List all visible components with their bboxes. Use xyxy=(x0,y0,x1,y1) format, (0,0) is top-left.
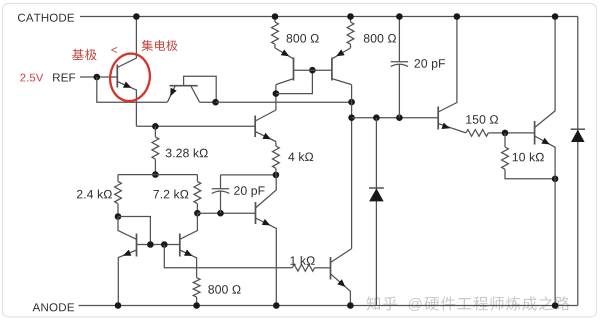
transistor Q8 emitter arrow xyxy=(184,250,193,256)
transistor Q4 emitter arrow xyxy=(336,49,344,56)
label 4 kOhm xyxy=(288,153,294,161)
transistor Q2 bar xyxy=(170,85,198,87)
label 10 kOhm xyxy=(513,153,518,161)
diode D1 wire xyxy=(375,118,377,306)
transistor Q2 emitter xyxy=(167,86,175,102)
transistor Q10 emitter xyxy=(438,124,466,133)
wire C2 top row xyxy=(221,174,276,176)
transistor Q3 bar xyxy=(293,58,295,81)
transistor Q2 base loop xyxy=(184,76,217,102)
wire 7.2k bottom to Q6 base xyxy=(197,212,255,214)
node Q11 base xyxy=(502,130,509,137)
node Q1 collector on rail xyxy=(133,13,140,20)
transistor Q3 base wire xyxy=(294,69,313,71)
wire REF down xyxy=(97,77,168,102)
wire PNP base link xyxy=(276,70,313,93)
node 10k bottom xyxy=(552,176,559,183)
transistor Q7 emitter xyxy=(118,250,136,306)
resistor R10 10k leads xyxy=(505,133,555,179)
resistor R5 7.2k leads xyxy=(196,175,198,214)
resistor R4 2.4k leads xyxy=(117,175,119,217)
node Q2 collector xyxy=(212,99,219,106)
node Q6 emitter anode xyxy=(273,302,280,309)
transistor Q4 collector xyxy=(332,79,352,85)
transistor Q9 bar xyxy=(330,257,332,280)
wire Q2 collector to node xyxy=(200,101,216,103)
resistor R5 7.2k body xyxy=(194,181,201,203)
transistor Q8 emitter xyxy=(180,250,197,278)
label 2.4 kOhm xyxy=(77,190,83,199)
label collector-red jidianji xyxy=(142,40,153,51)
label 800 Ohm bottom xyxy=(208,285,214,294)
transistor Q5 emitter xyxy=(255,132,276,142)
label less-than red xyxy=(111,47,117,53)
node R2 top xyxy=(347,13,354,20)
label 150 Ohm xyxy=(466,115,471,123)
transistor Q4 bar xyxy=(331,58,333,81)
node 3.28k bottom xyxy=(152,171,159,178)
node Q8 base drop xyxy=(161,241,168,248)
wire Q7 diode loop xyxy=(118,217,150,245)
node R7 anode xyxy=(193,302,200,309)
resistor R7 800 lead xyxy=(196,297,198,305)
transistor Q7 bar xyxy=(136,234,138,257)
transistor Q10 bar xyxy=(437,107,439,130)
transistor Q4 base wire xyxy=(312,69,332,71)
node Q7 base xyxy=(147,241,154,248)
node PNP bases xyxy=(309,67,316,74)
node vertical 117 xyxy=(348,114,355,121)
diode D1 bar xyxy=(369,187,384,189)
label ANODE xyxy=(33,303,41,311)
wire Q1 emitter to Q5 base xyxy=(136,125,255,127)
transistor Q7 emitter arrow xyxy=(123,250,131,256)
resistor R6 4k leads xyxy=(275,142,277,175)
wire node102 row xyxy=(216,101,352,103)
transistor Q5 bar xyxy=(254,116,256,138)
node 4k bottom xyxy=(273,172,280,179)
label 800 Ohm right xyxy=(364,34,370,43)
label 7.2 kOhm xyxy=(153,190,159,198)
transistor Q1 collector xyxy=(117,17,136,68)
resistor R2 800 leads xyxy=(350,17,352,49)
transistor Q9 collector xyxy=(331,249,352,263)
label CATHODE xyxy=(18,14,25,22)
label 2.5V red xyxy=(20,74,25,82)
node Q11 emitter anode xyxy=(552,302,559,309)
wire 3.28k bottom row xyxy=(118,174,197,176)
node C1 bottom xyxy=(396,114,403,121)
wire row 117 xyxy=(352,117,439,119)
transistor Q9 emitter arrow xyxy=(337,279,345,287)
transistor Q1 emitter xyxy=(117,82,136,127)
transistor Q10 collector xyxy=(438,17,457,113)
red ellipse highlight xyxy=(107,51,153,104)
transistor Q4 emitter xyxy=(332,48,351,59)
node Q7 emitter anode xyxy=(115,302,122,309)
label 20 pF top xyxy=(415,59,421,68)
node 3.28k top xyxy=(152,123,159,130)
resistor R7 800 body xyxy=(193,278,200,298)
resistor R2 800 body xyxy=(347,22,354,44)
node Q9 emitter anode xyxy=(347,302,354,309)
node Q11 collector rail xyxy=(552,13,559,20)
transistor Q6 bar xyxy=(255,202,257,224)
resistor R1 800 leads xyxy=(274,17,276,49)
resistor R8 1k body xyxy=(292,264,314,271)
transistor Q5 collector xyxy=(255,110,276,121)
capacitor C2 20pF xyxy=(220,191,222,213)
resistor R9 150 body xyxy=(466,130,488,137)
wire Q5 collector vertical xyxy=(275,85,277,110)
node vertical 102 xyxy=(348,99,355,106)
wire mirror base xyxy=(137,244,180,246)
resistor R3 3.28k leads xyxy=(154,126,156,174)
transistor Q1 emitter arrow xyxy=(123,82,132,88)
wire R9 to Q11 base xyxy=(488,132,534,134)
resistor R1 800 body xyxy=(272,22,279,44)
resistor R6 4k body xyxy=(273,146,280,168)
transistor Q11 emitter arrow xyxy=(541,138,550,145)
label 20 pF bottom xyxy=(234,186,240,195)
label 800 Ohm left xyxy=(287,34,293,43)
diode D2 bar xyxy=(571,128,585,130)
anode rail xyxy=(79,305,578,307)
label 1 kOhm xyxy=(290,256,295,264)
transistor Q11 bar xyxy=(534,121,536,145)
transistor Q2 emitter arrow xyxy=(170,88,176,97)
transistor Q3 emitter arrow xyxy=(281,49,289,56)
transistor Q11 collector xyxy=(535,17,556,128)
resistor R4 2.4k body xyxy=(115,181,122,203)
transistor Q8 collector xyxy=(180,213,198,239)
transistor Q2 collector xyxy=(191,86,200,102)
REF lead wire xyxy=(80,76,117,78)
node C2 bottom xyxy=(217,210,224,217)
transistor Q1 bar xyxy=(116,65,118,88)
wire base row to 1k xyxy=(164,245,292,268)
node REF junction xyxy=(94,74,101,81)
transistor Q9 emitter xyxy=(331,274,351,306)
wire Q11 emitter to anode xyxy=(554,179,556,306)
label REF xyxy=(53,74,60,82)
node PNP collector junction xyxy=(273,90,280,97)
node D1 top xyxy=(373,114,380,121)
watermark xyxy=(367,296,381,310)
transistor Q3 collector xyxy=(276,79,294,85)
node 7.2k bottom xyxy=(194,210,201,217)
transistor Q3 emitter xyxy=(275,48,294,59)
node Q10 collector rail xyxy=(454,13,461,20)
resistor R3 3.28k body xyxy=(152,137,159,159)
transistor Q6 collector xyxy=(256,175,277,208)
capacitor C1 20pF xyxy=(398,17,400,62)
diode D1 triangle xyxy=(369,188,384,201)
label 3.28 kOhm xyxy=(166,149,172,158)
cathode rail xyxy=(80,16,578,18)
transistor Q6 emitter xyxy=(256,218,277,306)
transistor Q5 emitter arrow xyxy=(263,133,272,139)
transistor Q7 collector xyxy=(118,217,137,240)
diode D2 triangle xyxy=(571,130,585,142)
transistor Q8 bar xyxy=(179,234,181,257)
transistor Q6 emitter arrow xyxy=(262,219,271,226)
wire main vertical xyxy=(351,85,353,249)
transistor Q11 emitter xyxy=(535,136,556,179)
node C1 top xyxy=(396,13,403,20)
node 2.4k bottom xyxy=(115,213,122,220)
wire 1k to Q9 base xyxy=(315,267,331,269)
label base-red jiji xyxy=(72,49,84,60)
transistor Q10 emitter arrow xyxy=(442,123,451,129)
resistor R10 10k body xyxy=(502,147,509,169)
node R1 top xyxy=(272,13,279,20)
right edge wire xyxy=(577,17,579,306)
